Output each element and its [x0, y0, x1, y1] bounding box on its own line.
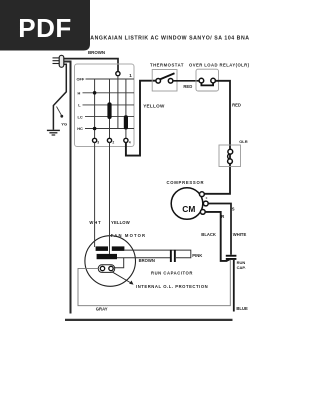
thermostat TH1	[150, 63, 184, 91]
svg-text:4: 4	[129, 140, 131, 144]
switch column 4	[125, 79, 127, 138]
wire terminal4 to thermostat (yellow)	[126, 81, 156, 156]
fan motor FM	[85, 233, 146, 286]
label WHITE	[233, 232, 247, 237]
wire wht terminal3 to fan motor	[94, 143, 96, 248]
label RED	[183, 84, 192, 89]
selector switch SW1 box	[75, 64, 135, 147]
svg-text:H: H	[78, 90, 81, 95]
arrow internal O.L. protection	[112, 272, 134, 285]
wire thermostat to OLR	[173, 80, 199, 82]
title	[86, 36, 250, 42]
compressor terminal S	[203, 201, 208, 206]
label YELLOW	[143, 104, 165, 109]
svg-text:RED: RED	[183, 84, 192, 89]
wire R black to run capacitor	[205, 212, 229, 261]
svg-text:RED: RED	[232, 103, 241, 108]
fan motor winding bar main	[97, 254, 117, 259]
label GRAY	[96, 307, 108, 312]
svg-text:INTERNAL O.L. PROTECTION: INTERNAL O.L. PROTECTION	[136, 284, 208, 289]
wire gray loop	[78, 260, 230, 306]
svg-text:BROWN: BROWN	[88, 50, 105, 55]
run capacitor inline bars	[170, 250, 176, 262]
compressor terminal C	[200, 192, 208, 200]
plug P1	[53, 55, 64, 67]
switch column 1	[94, 79, 96, 138]
svg-text:2: 2	[112, 140, 114, 144]
contact bar col4 LC-HC	[124, 115, 128, 129]
label BROWN (motor)	[139, 258, 155, 263]
svg-text:LC: LC	[78, 114, 83, 119]
OLR internal protector box	[219, 139, 248, 167]
svg-text:BLACK: BLACK	[201, 232, 216, 237]
wire left rail (neutral)	[64, 62, 71, 314]
fan motor winding bar right	[112, 246, 125, 251]
wire red OLR to compressor C	[204, 81, 230, 194]
overload relay OLR	[189, 63, 250, 91]
label RUN CAPACITOR	[151, 270, 193, 275]
label BROWN	[88, 50, 105, 55]
svg-text:OLR: OLR	[239, 139, 248, 144]
compressor CM	[167, 180, 205, 219]
label INTERNAL O.L. PROTECTION	[136, 284, 208, 289]
label R	[221, 214, 224, 219]
wire yellow terminal2 to fan motor	[109, 143, 111, 255]
switch row labels OFF H L LC HC	[77, 77, 85, 132]
wire yellow-green to ground	[53, 64, 66, 130]
svg-text:CAP.: CAP.	[237, 265, 246, 270]
wire S white to run capacitor	[208, 204, 231, 255]
svg-text:BROWN: BROWN	[139, 258, 155, 263]
labels WHT YELLOW	[89, 220, 129, 225]
svg-text:1: 1	[129, 73, 132, 78]
wire blue from run capacitor	[233, 260, 235, 312]
svg-text:THERMOSTAT: THERMOSTAT	[150, 63, 184, 68]
switch column 3 (input from terminal 1)	[116, 72, 120, 129]
ground	[47, 130, 60, 135]
label YG	[61, 121, 67, 126]
svg-text:YELLOW: YELLOW	[111, 220, 130, 225]
terminal 2	[107, 138, 114, 144]
svg-text:3: 3	[97, 140, 99, 144]
label PINK	[192, 253, 202, 258]
svg-text:R: R	[221, 214, 224, 219]
svg-text:OFF: OFF	[77, 77, 85, 82]
svg-text:YELLOW: YELLOW	[143, 104, 165, 109]
fan motor winding bar left	[96, 246, 108, 251]
label BLACK	[201, 232, 216, 237]
wire main bottom	[65, 319, 233, 321]
compressor terminal R	[200, 210, 205, 215]
svg-text:PDF: PDF	[18, 13, 72, 43]
contact bar col2 L-LC	[107, 102, 111, 119]
svg-text:COMPRESSOR: COMPRESSOR	[167, 180, 205, 185]
svg-text:WHITE: WHITE	[233, 232, 247, 237]
label RED vertical wire	[232, 103, 241, 108]
svg-text:FAN MOTOR: FAN MOTOR	[111, 233, 146, 238]
switch column 2	[109, 79, 111, 138]
switch row lines	[83, 79, 135, 129]
wire protector to brown line	[115, 258, 124, 268]
svg-text:BLUE: BLUE	[236, 306, 248, 311]
svg-text:GRAY: GRAY	[96, 307, 108, 312]
label RUN CAP.	[237, 260, 246, 270]
internal overload protector box	[98, 265, 114, 273]
svg-text:PINK: PINK	[192, 253, 202, 258]
pointer to YG node	[57, 107, 64, 118]
svg-text:CM: CM	[182, 204, 195, 214]
svg-text:WHT: WHT	[89, 220, 101, 225]
label 1	[129, 73, 132, 78]
run capacitor plates	[226, 255, 237, 260]
run capacitor inline loop wire	[117, 250, 191, 258]
PDF badge	[0, 0, 90, 51]
junction dot col1 row H	[93, 91, 97, 95]
label S	[232, 207, 235, 212]
junction dot col1 row HC	[93, 127, 97, 131]
svg-text:RANGKAIAN LISTRIK AC WINDOW S: RANGKAIAN LISTRIK AC WINDOW SANYO/ SA 10…	[86, 36, 250, 42]
label BLUE	[236, 306, 248, 311]
svg-text:YG: YG	[61, 121, 67, 126]
terminal 4	[124, 138, 131, 144]
svg-text:RUN CAPACITOR: RUN CAPACITOR	[151, 270, 193, 275]
terminal 3	[93, 138, 100, 144]
svg-text:HC: HC	[77, 126, 83, 131]
wire brown top: plug to switch terminal 1	[64, 59, 118, 71]
svg-text:c: c	[206, 196, 208, 200]
svg-text:OVER LOAD RELAY(OLR): OVER LOAD RELAY(OLR)	[189, 63, 250, 68]
svg-text:S: S	[232, 207, 235, 212]
